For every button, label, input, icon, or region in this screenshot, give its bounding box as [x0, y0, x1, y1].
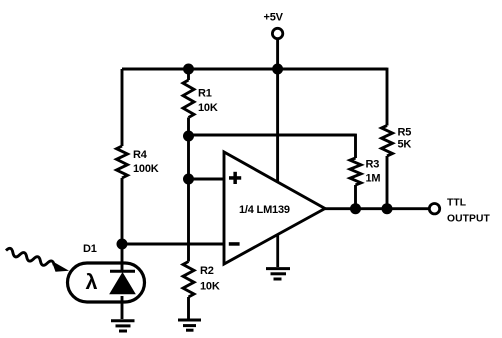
wire R1 bottom to node A: [187, 118, 190, 180]
svg-text:10K: 10K: [198, 102, 218, 114]
junction dot D1 / R4 / minus input: [117, 239, 128, 250]
wire node A to R3 feed: [189, 134, 356, 137]
ground for op-amp: [266, 269, 290, 279]
wire +5V rail to op-amp V+ pin: [276, 69, 279, 181]
op-amp plus sign: [229, 172, 241, 184]
resistor R3: [350, 158, 361, 185]
junction dot R5 at output: [382, 203, 393, 214]
resistor R4: [117, 146, 128, 178]
wire +5V stem to rail: [276, 39, 279, 69]
wire op-amp ground pin: [276, 234, 279, 267]
wire output: [325, 207, 429, 210]
resistor R5: [382, 126, 393, 157]
wire R3 vertical upper: [354, 134, 357, 158]
ground for D1: [111, 321, 135, 331]
svg-text:λ: λ: [86, 270, 98, 294]
svg-text:1M: 1M: [366, 173, 381, 185]
svg-text:OUTPUT: OUTPUT: [447, 214, 491, 225]
wire R4 to node D1: [121, 178, 124, 244]
svg-text:100K: 100K: [133, 163, 159, 175]
svg-text:1/4 LM139: 1/4 LM139: [239, 204, 290, 216]
junction dot +5V rail: [272, 64, 283, 75]
resistor R1: [183, 80, 194, 118]
svg-text:R1: R1: [198, 88, 212, 100]
wire R3 to output node: [354, 185, 357, 209]
svg-text:R2: R2: [200, 265, 214, 277]
ground for R2: [178, 320, 201, 330]
diode D1 triangle: [111, 274, 135, 294]
wire R5 vertical from rail: [386, 68, 389, 126]
diode D1 cathode bar: [110, 270, 135, 273]
svg-text:5K: 5K: [398, 139, 412, 151]
resistor R2: [183, 262, 194, 298]
svg-text:TTL: TTL: [447, 198, 466, 209]
svg-text:R4: R4: [133, 149, 148, 161]
wire top +5V rail: [122, 68, 387, 71]
op-amp minus sign: [229, 242, 240, 246]
junction dot R3 at output: [350, 203, 361, 214]
wire R5 to output node: [386, 156, 389, 209]
svg-text:+5V: +5V: [264, 12, 284, 24]
svg-text:10K: 10K: [200, 281, 220, 293]
svg-text:R5: R5: [398, 127, 412, 139]
wire R2 to ground: [187, 297, 190, 319]
svg-text:R3: R3: [366, 159, 380, 171]
wire left rail upper (to R4): [121, 69, 124, 146]
svg-text:D1: D1: [83, 243, 97, 255]
wire D1 anode to ground: [121, 296, 124, 319]
junction dot R1 bottom / R3 feed: [183, 131, 194, 142]
wire D1 node into diode: [121, 244, 124, 271]
wire minus input from D1 node: [122, 243, 224, 246]
junction dot R1 top rail: [183, 64, 194, 75]
terminal TTL OUTPUT circle: [429, 204, 439, 214]
photodiode D1 body (pill): [68, 263, 145, 302]
wire R1 rail from top: [187, 69, 190, 80]
junction dot plus input: [183, 174, 194, 185]
wire plus input: [189, 178, 225, 181]
op-amp U1 1/4 LM139 triangle: [224, 152, 325, 264]
light wavy arrow into D1: [5, 247, 69, 271]
wire node A down to R2 (crosses minus wire): [187, 179, 190, 262]
terminal +5V circle: [272, 28, 282, 38]
